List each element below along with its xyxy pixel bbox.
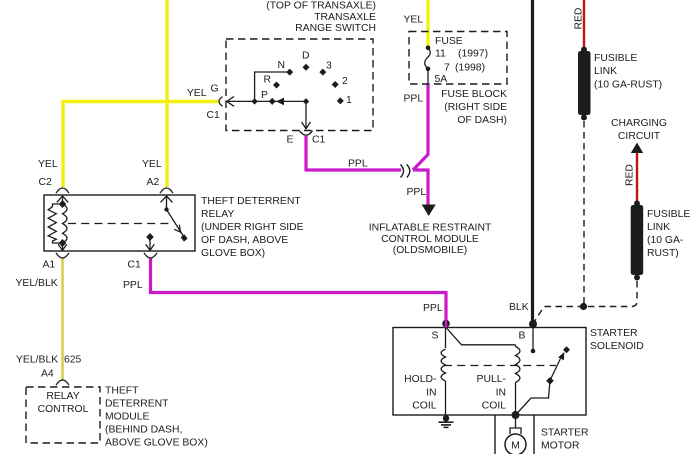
dashed wire junction to solenoid B <box>535 307 585 322</box>
svg-text:LINK: LINK <box>594 66 617 77</box>
solenoid switch fixed contact <box>563 346 570 353</box>
contact 2 <box>332 81 339 88</box>
svg-text:(1998): (1998) <box>455 62 485 73</box>
svg-text:IN: IN <box>496 388 506 399</box>
fuse element <box>425 46 431 85</box>
svg-text:YEL/BLK: YEL/BLK <box>16 355 58 366</box>
relay coil node top <box>59 200 67 208</box>
wire YEL vertical from top to relay A2 <box>165 0 168 187</box>
relay switch arm <box>167 210 188 242</box>
node S terminal <box>442 318 450 328</box>
arrow to inflatable restraint module <box>422 205 436 217</box>
label FUSE BLOCK <box>441 89 507 126</box>
connector C2 half circle <box>56 188 69 193</box>
wire inside range switch horizontal to P <box>227 100 306 102</box>
label BLK <box>509 302 529 313</box>
svg-text:THEFT: THEFT <box>105 386 139 397</box>
svg-text:RELAY: RELAY <box>201 209 234 220</box>
label C1 at G <box>207 110 221 121</box>
svg-text:A1: A1 <box>43 259 56 270</box>
svg-text:(BEHIND DASH,: (BEHIND DASH, <box>105 425 182 436</box>
label STARTER SOLENOID <box>590 328 644 352</box>
svg-text:E: E <box>287 135 294 146</box>
starter motor box sides <box>495 415 534 454</box>
svg-text:HOLD-: HOLD- <box>404 374 436 385</box>
label B <box>519 331 526 342</box>
svg-text:MODULE: MODULE <box>105 412 150 423</box>
svg-text:PULL-: PULL- <box>477 374 506 385</box>
svg-text:INFLATABLE RESTRAINT: INFLATABLE RESTRAINT <box>369 223 492 234</box>
relay coil loops branch <box>63 204 68 243</box>
svg-text:LINK: LINK <box>647 222 670 233</box>
label HOLD-IN COIL <box>404 374 437 412</box>
svg-text:(OLDSMOBILE): (OLDSMOBILE) <box>393 245 467 256</box>
svg-text:FUSE: FUSE <box>435 36 463 47</box>
svg-text:PPL: PPL <box>423 303 443 314</box>
svg-text:YEL: YEL <box>142 159 162 170</box>
label 2 <box>342 76 348 87</box>
node B terminal <box>529 320 537 328</box>
svg-text:11: 11 <box>435 49 446 60</box>
svg-text:PPL: PPL <box>407 187 427 198</box>
label 1 <box>346 95 352 106</box>
connector E C1 half circle <box>300 131 313 135</box>
svg-text:M: M <box>511 440 520 451</box>
svg-text:SOLENOID: SOLENOID <box>590 341 644 352</box>
svg-text:(RIGHT SIDE: (RIGHT SIDE <box>444 102 507 113</box>
relay switch pivot <box>164 207 168 211</box>
relay switch arrow top <box>161 196 173 210</box>
contact N <box>286 69 293 76</box>
label THEFT DETERRENT RELAY <box>201 196 304 259</box>
connector G C1 half circle <box>219 97 223 107</box>
label RED rotated 1 <box>574 8 585 30</box>
connector A2 half circle <box>160 188 173 193</box>
contact R <box>273 82 280 89</box>
svg-text:5A: 5A <box>435 74 448 85</box>
svg-text:YEL/BLK: YEL/BLK <box>16 278 58 289</box>
wire PPL range switch E to inline connector <box>306 136 401 170</box>
starter solenoid box <box>393 328 586 416</box>
label RED rotated 2 <box>625 164 636 186</box>
connector C1 half circle <box>144 253 157 258</box>
svg-text:CHARGING: CHARGING <box>611 118 667 129</box>
wire S to pull-in coil <box>446 328 516 345</box>
label YEL at relay C2 <box>38 159 58 170</box>
svg-text:PPL: PPL <box>404 94 424 105</box>
dashed wire from fusible link 2 to junction <box>584 281 637 307</box>
label A4 <box>41 369 54 380</box>
hold-in coil <box>441 328 445 418</box>
wire branch up to N contact <box>255 72 290 101</box>
label YEL at fuse <box>404 15 424 26</box>
svg-text:CIRCUIT: CIRCUIT <box>618 131 661 142</box>
connector A1 half circle <box>56 253 69 258</box>
fuse block dashed box <box>409 32 507 85</box>
svg-text:3: 3 <box>326 61 332 72</box>
svg-text:R: R <box>264 74 272 85</box>
svg-text:C1: C1 <box>312 135 326 146</box>
wire YEL/BLK relay A1 to module A4 <box>61 258 64 380</box>
svg-text:CONTROL MODULE: CONTROL MODULE <box>381 234 479 245</box>
svg-text:YEL: YEL <box>187 88 207 99</box>
label PPL below fuse <box>404 94 424 105</box>
svg-text:FUSIBLE: FUSIBLE <box>594 53 637 64</box>
svg-text:1: 1 <box>346 95 352 106</box>
label D <box>302 51 310 62</box>
label G <box>211 84 219 95</box>
label C1 at relay <box>128 259 142 270</box>
label RELAY CONTROL <box>38 391 89 415</box>
label YEL/BLK 625 <box>16 355 82 366</box>
relay C1 contact <box>146 233 155 250</box>
svg-text:A4: A4 <box>41 369 54 380</box>
label R <box>264 74 272 85</box>
svg-text:OF DASH): OF DASH) <box>457 115 507 126</box>
node junction on P line <box>251 98 257 104</box>
svg-text:MOTOR: MOTOR <box>541 441 580 452</box>
wire PPL fuse to junction and down to module arrow <box>413 84 428 205</box>
label (TOP OF TRANSAXLE) heading <box>266 0 376 34</box>
label STARTER MOTOR <box>541 428 589 452</box>
svg-text:7: 7 <box>444 62 450 73</box>
svg-text:THEFT DETERRENT: THEFT DETERRENT <box>201 196 301 207</box>
svg-text:C1: C1 <box>128 259 142 270</box>
svg-text:(10 GA-: (10 GA- <box>647 235 683 246</box>
arrow into connector G <box>227 97 234 107</box>
label PPL below connector <box>407 187 427 198</box>
svg-text:(UNDER RIGHT SIDE: (UNDER RIGHT SIDE <box>201 222 304 233</box>
theft deterrent module dashed box <box>26 387 100 443</box>
label fuse 7 (1998) <box>444 62 485 73</box>
svg-text:FUSIBLE: FUSIBLE <box>647 209 690 220</box>
label FUSIBLE LINK 1 <box>594 53 662 90</box>
contact 3 <box>319 69 326 76</box>
label fuse 11 (1997) <box>435 49 488 60</box>
label CHARGING CIRCUIT <box>611 118 667 142</box>
fusible link 2 <box>631 201 644 281</box>
label PULL-IN COIL <box>477 374 507 412</box>
pull-in coil <box>516 345 520 415</box>
relay coil zigzag branch <box>48 204 62 243</box>
wire YEL corner to range switch G and down to relay C2 <box>63 102 220 188</box>
svg-text:P: P <box>261 90 268 101</box>
relay coil arrow top <box>57 196 68 204</box>
svg-text:625: 625 <box>64 355 82 366</box>
wire RED charging circuit to fusible link 2 <box>636 150 638 203</box>
wire BLK thick from top to solenoid B <box>531 0 534 324</box>
contact D <box>303 64 310 71</box>
range switch dashed box <box>226 39 373 131</box>
svg-text:YEL: YEL <box>38 159 58 170</box>
svg-text:A2: A2 <box>147 177 160 188</box>
label 5A <box>435 74 448 85</box>
svg-text:RANGE SWITCH: RANGE SWITCH <box>295 23 376 34</box>
svg-text:D: D <box>302 51 310 62</box>
svg-text:PPL: PPL <box>123 280 143 291</box>
svg-text:STARTER: STARTER <box>590 328 638 339</box>
connector A4 half circle <box>56 380 69 385</box>
svg-text:C2: C2 <box>39 177 53 188</box>
wire B into switch contact <box>531 324 536 353</box>
label YEL at relay A2 <box>142 159 162 170</box>
label C2 <box>39 177 53 188</box>
arrow up to charging circuit <box>631 143 643 154</box>
label A1 <box>43 259 56 270</box>
fusible link 1 <box>578 47 591 121</box>
wire PPL relay C1 to solenoid S <box>151 258 447 323</box>
svg-text:RED: RED <box>625 164 636 186</box>
starter motor terminal <box>510 415 521 434</box>
label E <box>287 135 294 146</box>
svg-text:IN: IN <box>426 388 436 399</box>
svg-text:(1997): (1997) <box>458 49 488 60</box>
svg-text:CONTROL: CONTROL <box>38 404 89 415</box>
wire RED top to fusible link 1 <box>583 0 585 48</box>
node bottom junction <box>512 411 520 419</box>
inline connector PPL <box>401 165 410 178</box>
label FUSE <box>435 36 463 47</box>
svg-text:G: G <box>211 84 219 95</box>
svg-text:ABOVE GLOVE BOX): ABOVE GLOVE BOX) <box>105 438 208 449</box>
svg-text:STARTER: STARTER <box>541 428 589 439</box>
starter motor M circle <box>505 434 526 454</box>
svg-text:YEL: YEL <box>404 15 424 26</box>
label S <box>432 330 439 341</box>
label INFLATABLE RESTRAINT CONTROL MODULE <box>369 223 492 257</box>
arrowhead at P contact <box>276 98 284 106</box>
svg-text:PPL: PPL <box>348 159 368 170</box>
wire down to E with arrow <box>302 101 311 128</box>
svg-text:S: S <box>432 330 439 341</box>
label PPL mid <box>348 159 368 170</box>
contact P <box>269 98 276 105</box>
label PPL near solenoid <box>423 303 443 314</box>
ground under hold-in coil <box>439 415 454 427</box>
label C1 at E <box>312 135 326 146</box>
svg-text:TRANSAXLE: TRANSAXLE <box>314 12 376 23</box>
dashed wire from fusible link 1 down <box>583 121 585 307</box>
label YEL/BLK <box>16 278 58 289</box>
label PPL at relay <box>123 280 143 291</box>
label A2 <box>147 177 160 188</box>
svg-text:GLOVE BOX): GLOVE BOX) <box>201 248 265 259</box>
svg-text:B: B <box>519 331 526 342</box>
svg-text:COIL: COIL <box>482 401 506 412</box>
svg-text:(TOP OF TRANSAXLE): (TOP OF TRANSAXLE) <box>266 0 376 11</box>
svg-text:N: N <box>278 60 286 71</box>
junction node on dashed wire <box>580 303 587 310</box>
svg-text:BLK: BLK <box>509 302 529 313</box>
theft deterrent relay box <box>44 195 195 251</box>
contact 1 <box>337 97 344 104</box>
relay linkage dashed line <box>68 223 172 225</box>
label THEFT DETERRENT MODULE <box>105 386 208 449</box>
solenoid switch arm <box>516 352 565 415</box>
svg-text:OF DASH, ABOVE: OF DASH, ABOVE <box>201 235 288 246</box>
label N <box>278 60 286 71</box>
label P <box>261 90 268 101</box>
svg-text:RED: RED <box>574 8 585 30</box>
solenoid linkage dashed line <box>444 365 556 367</box>
label YEL at G <box>187 88 207 99</box>
relay coil node bottom <box>59 239 67 247</box>
relay coil arrow bottom <box>58 243 67 250</box>
svg-text:COIL: COIL <box>412 401 436 412</box>
svg-text:2: 2 <box>342 76 348 87</box>
svg-text:RUST): RUST) <box>647 248 679 259</box>
svg-text:C1: C1 <box>207 110 221 121</box>
svg-text:(10 GA-RUST): (10 GA-RUST) <box>594 79 662 90</box>
svg-text:RELAY: RELAY <box>46 391 79 402</box>
node junction at E branch <box>303 98 309 104</box>
svg-text:DETERRENT: DETERRENT <box>105 399 169 410</box>
label FUSIBLE LINK 2 <box>647 209 690 259</box>
svg-text:FUSE BLOCK: FUSE BLOCK <box>441 89 507 100</box>
label 3 <box>326 61 332 72</box>
wire YEL vertical from top to fuse <box>426 0 429 47</box>
